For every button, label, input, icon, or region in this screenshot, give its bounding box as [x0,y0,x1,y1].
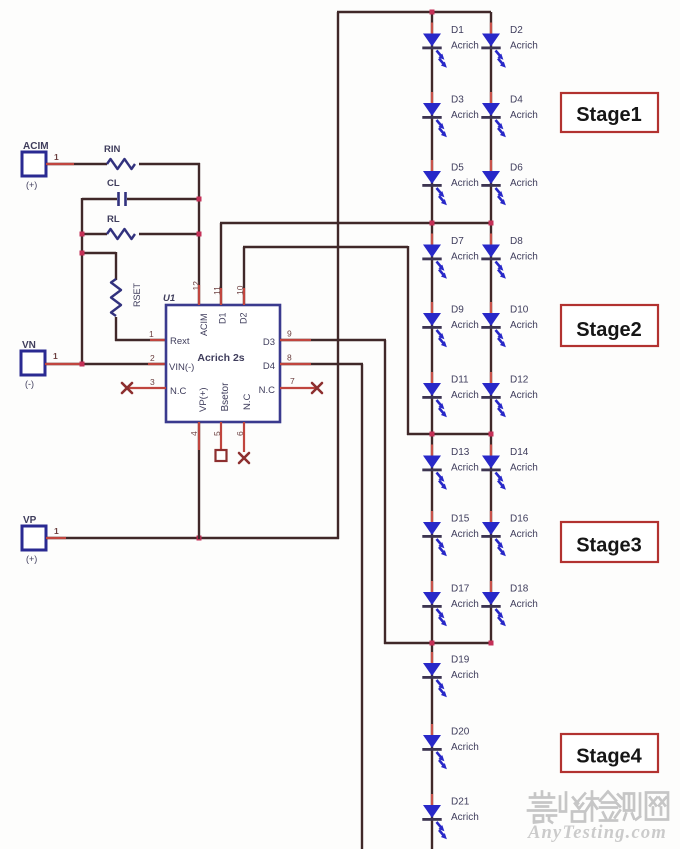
svg-text:Acrich: Acrich [451,529,479,540]
svg-text:Stage3: Stage3 [576,535,642,557]
svg-text:AnyTesting.com: AnyTesting.com [527,823,667,843]
wire RL row [82,233,107,235]
svg-text:8: 8 [287,353,292,363]
wire left vertical [81,198,83,365]
junction top rail [430,10,435,15]
svg-text:Acrich: Acrich [451,463,479,474]
svg-text:Acrich: Acrich [510,320,538,331]
svg-text:D21: D21 [451,797,470,808]
svg-text:Rext: Rext [170,336,190,347]
pin 10 wire D2 net [243,247,245,305]
svg-text:D9: D9 [451,305,464,316]
svg-text:D2: D2 [239,312,249,324]
svg-text:Acrich: Acrich [451,670,479,681]
pin 12 stub [198,285,200,305]
wire ACIM to RIN [46,163,107,165]
svg-text:Acrich: Acrich [451,178,479,189]
svg-text:D10: D10 [510,305,529,316]
svg-text:VN: VN [22,340,36,351]
pin 3 stub NC [127,387,166,389]
svg-text:Acrich: Acrich [451,599,479,610]
svg-text:4: 4 [189,431,199,436]
svg-text:Stage4: Stage4 [576,746,642,768]
LED D18 [481,581,506,626]
stage box Stage1 [561,93,658,132]
junction VP pin4 node [197,536,202,541]
LED D13 [422,445,447,490]
svg-text:Acrich: Acrich [510,599,538,610]
LED D1 [422,23,447,68]
svg-text:D20: D20 [451,727,470,738]
svg-text:VIN(-): VIN(-) [169,362,194,373]
pin 5 open terminal square [216,450,227,461]
svg-text:D2: D2 [510,25,523,36]
svg-text:Acrich: Acrich [510,463,538,474]
no-connect X pin 7 [312,383,322,393]
svg-text:D13: D13 [451,447,470,458]
LED D9 [422,302,447,347]
svg-text:Stage2: Stage2 [576,319,642,341]
svg-text:RIN: RIN [104,144,121,155]
terminal VN [21,351,45,375]
svg-text:Acrich: Acrich [451,390,479,401]
pin 4 wire VP net [198,422,200,539]
svg-text:Acrich: Acrich [510,252,538,263]
terminal ACIM [22,152,46,176]
svg-text:(+): (+) [26,180,37,190]
svg-text:D7: D7 [451,236,464,247]
no-connect X pin 6 [239,453,249,463]
junction stage3/4 left [430,641,435,646]
svg-text:Acrich: Acrich [451,41,479,52]
LED D15 [422,511,447,556]
svg-text:RL: RL [107,214,120,225]
LED D14 [481,445,506,490]
svg-text:Acrich 2s: Acrich 2s [197,352,244,364]
LED D7 [422,234,447,279]
wire RSET branch [82,252,116,254]
svg-text:D15: D15 [451,514,470,525]
svg-text:1: 1 [54,526,59,536]
no-connect X pin 3 [122,383,132,393]
pin 7 stub NC [280,387,317,389]
watermark chinese characters [528,792,668,823]
svg-text:ACIM: ACIM [199,314,209,337]
svg-text:Acrich: Acrich [451,110,479,121]
capacitor CL [117,192,120,206]
svg-text:VP: VP [23,515,37,526]
svg-text:D12: D12 [510,375,529,386]
resistor RL [107,229,135,239]
svg-text:Acrich: Acrich [510,41,538,52]
IC U1 Acrich2 body [166,305,280,422]
LED D6 [481,160,506,205]
wire riser to LED top [337,12,339,539]
junction stage2/3 left [430,432,435,437]
svg-text:RSET: RSET [132,282,142,307]
LED D12 [481,372,506,417]
wire VN to pin2 [45,363,166,365]
svg-text:1: 1 [53,351,58,361]
svg-text:VP(+): VP(+) [198,387,209,412]
svg-text:(+): (+) [26,554,37,564]
svg-text:Acrich: Acrich [510,529,538,540]
LED D10 [481,302,506,347]
svg-text:D1: D1 [218,312,228,324]
svg-text:N.C: N.C [259,385,276,396]
wire LED right column [490,12,492,643]
resistor RSET [111,279,121,316]
pin 8 wire D4 net [280,363,363,365]
svg-text:N.C: N.C [242,394,253,411]
svg-text:U1: U1 [163,293,175,304]
LED D5 [422,160,447,205]
svg-text:D4: D4 [510,95,523,106]
LED D17 [422,581,447,626]
LED D11 [422,372,447,417]
svg-text:3: 3 [150,377,155,387]
LED D3 [422,92,447,137]
LED D19 [422,652,447,697]
terminal VP [22,526,46,550]
svg-text:D3: D3 [263,337,275,348]
LED D2 [481,23,506,68]
wire RSET to pin1 [115,317,117,341]
wire CL row [82,198,117,200]
svg-text:Bsetor: Bsetor [220,382,231,412]
junction RSET left [80,251,85,256]
svg-text:D18: D18 [510,584,529,595]
svg-text:Acrich: Acrich [451,812,479,823]
pin 11 wire D1 net [220,223,222,305]
wire top rail [337,11,491,13]
svg-text:D6: D6 [510,163,523,174]
wire node down to pin12 [198,163,200,305]
svg-text:D8: D8 [510,236,523,247]
LED D16 [481,511,506,556]
junction stage1/2 left [430,221,435,226]
resistor RIN [107,159,135,169]
junction stage3/4 right [489,641,494,646]
svg-text:1: 1 [149,329,154,339]
LED D20 [422,724,447,769]
wire VP to riser [46,537,339,539]
LED D8 [481,234,506,279]
svg-text:(-): (-) [25,379,34,389]
svg-text:Acrich: Acrich [451,742,479,753]
stage box Stage4 [561,734,658,772]
LED D4 [481,92,506,137]
wire LED left column [431,12,433,849]
svg-text:9: 9 [287,329,292,339]
svg-text:D11: D11 [451,375,469,386]
svg-text:Acrich: Acrich [510,178,538,189]
pin 9 wire D3 net [280,339,386,341]
svg-text:N.C: N.C [170,386,187,397]
junction RL left [80,232,85,237]
junction CL node [197,197,202,202]
junction VN node [80,362,85,367]
svg-text:D16: D16 [510,514,529,525]
svg-text:ACIM: ACIM [23,141,49,152]
LED D21 [422,794,447,839]
svg-text:D14: D14 [510,447,529,458]
svg-text:CL: CL [107,178,120,189]
svg-text:D19: D19 [451,655,470,666]
svg-text:Acrich: Acrich [510,390,538,401]
junction stage2/3 right [489,432,494,437]
svg-text:7: 7 [290,376,295,386]
stage box Stage2 [561,305,658,346]
svg-text:D17: D17 [451,584,470,595]
svg-text:Acrich: Acrich [510,110,538,121]
wire RIN to node [139,163,200,165]
svg-text:D4: D4 [263,361,275,372]
svg-text:D5: D5 [451,163,464,174]
svg-text:D3: D3 [451,95,464,106]
pin 6 stub NC [243,422,245,452]
junction stage1/2 right [489,221,494,226]
svg-text:Acrich: Acrich [451,252,479,263]
svg-text:1: 1 [54,152,59,162]
svg-text:2: 2 [150,353,155,363]
svg-text:D1: D1 [451,25,464,36]
svg-text:Stage1: Stage1 [576,104,642,126]
stage box Stage3 [561,522,658,562]
svg-text:Acrich: Acrich [451,320,479,331]
pin 5 stub Bset [220,422,222,450]
junction RL node [197,232,202,237]
